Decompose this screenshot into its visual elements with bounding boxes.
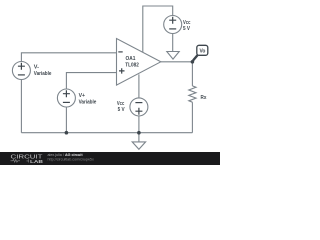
ground top (under Vcc top source) xyxy=(167,52,179,60)
svg-text:5 V: 5 V xyxy=(118,107,125,113)
ground bottom (under Vcc bottom source) xyxy=(132,142,145,149)
svg-text:LAB: LAB xyxy=(30,159,43,164)
wire V- top to op-amp inverting input xyxy=(21,53,116,62)
junction dot at V+ bottom on rail xyxy=(65,131,69,135)
voltage source Vcc 5V bottom xyxy=(117,98,148,116)
svg-text:OA1: OA1 xyxy=(126,56,136,62)
svg-text:Rx: Rx xyxy=(201,95,207,101)
wire Vcc bottom source to rail and ground xyxy=(138,116,140,142)
svg-text:Variable: Variable xyxy=(34,71,52,77)
svg-text:Variable: Variable xyxy=(79,99,97,105)
wire node Vo down to resistor Rx xyxy=(191,62,193,86)
watermark bar xyxy=(0,152,220,165)
voltage source Vcc 5V top xyxy=(164,16,191,34)
resistor Rx xyxy=(189,86,207,102)
svg-text:alex.julia / AG circuit: alex.julia / AG circuit xyxy=(48,153,84,157)
svg-text:Vo: Vo xyxy=(200,48,206,54)
wire op-amp output to node Vo xyxy=(161,61,193,63)
wire V- bottom to ground rail xyxy=(20,79,22,132)
junction dot at Vcc bottom on rail xyxy=(137,131,141,135)
svg-text:V+: V+ xyxy=(79,93,85,99)
wire op-amp V+ supply pin to Vcc top source xyxy=(143,6,173,53)
svg-text:TL082: TL082 xyxy=(125,63,139,69)
voltage source V+ Variable xyxy=(57,89,96,107)
svg-text:Vcc: Vcc xyxy=(183,20,190,26)
wire Vcc top source to ground xyxy=(172,34,174,52)
wire op-amp V- supply pin to Vcc bottom source xyxy=(138,74,140,98)
wire V+ bottom to rail xyxy=(65,107,67,133)
svg-text:V-: V- xyxy=(34,65,39,71)
wire V+ top to op-amp non-inverting input xyxy=(66,73,116,90)
svg-text:5 V: 5 V xyxy=(183,26,190,32)
svg-text:Vcc: Vcc xyxy=(117,101,124,107)
wire resistor Rx bottom to rail xyxy=(191,102,193,133)
op-amp OA1 TL082 xyxy=(117,39,161,86)
wire bottom rail xyxy=(21,132,192,134)
voltage source V- Variable xyxy=(12,62,51,80)
node flag Vo xyxy=(193,45,208,60)
svg-text:http://circuitlab.com/c/uqw5x: http://circuitlab.com/c/uqw5x xyxy=(48,158,94,162)
junction dot at node Vo xyxy=(191,60,195,64)
